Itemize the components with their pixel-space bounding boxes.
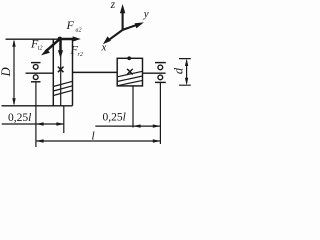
- shaft line between gear G2 and bearing B2: [143, 72, 166, 74]
- bottom edge of gear G1 / extension for D: [2, 105, 73, 107]
- dimension d arrow: [185, 59, 188, 86]
- top edge line of gear G1 / extension for D: [6, 38, 73, 40]
- cross mark in gear G1: [58, 67, 64, 73]
- svg-text:z: z: [110, 0, 116, 11]
- dimension D line with arrows: [12, 39, 15, 106]
- dimension l line with arrows: [36, 139, 160, 142]
- gear G1 centerline: [60, 39, 62, 106]
- gear G1 box: [53, 39, 72, 106]
- svg-text:l: l: [92, 130, 95, 142]
- bearing B2 (right): [155, 63, 166, 83]
- cross mark in gear G2: [127, 69, 133, 75]
- node dot on top of gear G2: [127, 56, 131, 60]
- dimension 0.25l (right) line with arrows: [95, 124, 160, 127]
- node dot at force application point on gear G1: [58, 37, 63, 42]
- svg-text:0,25l: 0,25l: [103, 112, 126, 124]
- gear G2 hatch: [117, 71, 142, 86]
- bearing B2 support stem / extension line: [159, 82, 161, 144]
- dimension d extension ticks: [179, 59, 191, 86]
- shaft line between gear G1 and gear G2: [73, 71, 118, 73]
- coordinate axes origin: [103, 4, 144, 44]
- dimension 0.25l (left) line with arrows: [2, 122, 64, 125]
- svg-text:y: y: [143, 8, 149, 20]
- gear G2 box (right): [117, 58, 142, 86]
- extension line below gear G2 center: [132, 86, 134, 128]
- force Ft2 arrow (tangential, down-left): [41, 39, 60, 56]
- force Fa2 arrow (axial, along +y): [60, 36, 81, 41]
- svg-text:a2: a2: [76, 28, 82, 34]
- svg-text:d: d: [171, 67, 185, 74]
- shaft line through bearing B1: [26, 72, 54, 74]
- svg-text:D: D: [0, 67, 13, 77]
- svg-text:x: x: [101, 42, 107, 54]
- svg-text:t2: t2: [38, 46, 43, 52]
- force Fr2 arrow (radial, down): [58, 39, 63, 58]
- bearing B1 support stem / extension line: [35, 82, 37, 147]
- extension line below gear G1 center: [63, 106, 65, 133]
- svg-text:F: F: [66, 18, 75, 32]
- bearing B1 (left): [31, 63, 41, 82]
- gear G1 hatch: [53, 81, 72, 95]
- svg-text:0,25l: 0,25l: [8, 112, 31, 124]
- axis x: [109, 30, 123, 40]
- axis y: [123, 25, 138, 30]
- svg-text:r2: r2: [78, 52, 83, 58]
- axis z: [122, 12, 124, 30]
